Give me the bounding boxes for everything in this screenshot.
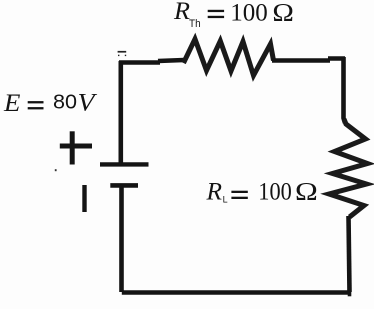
svg-text:80: 80 bbox=[53, 92, 77, 114]
svg-text:L: L bbox=[223, 195, 228, 205]
svg-text:E: E bbox=[3, 88, 21, 117]
wire bottom horizontal bbox=[122, 290, 351, 295]
battery E top plate bbox=[100, 162, 149, 166]
resistor R_Th bbox=[184, 39, 274, 76]
wire bottom-right corner nub bbox=[348, 292, 352, 296]
svg-text:Ω: Ω bbox=[295, 179, 318, 206]
wire left vertical upper bbox=[119, 61, 124, 163]
svg-text:100: 100 bbox=[230, 0, 267, 26]
svg-text:Th: Th bbox=[189, 18, 201, 30]
wire left vertical lower bbox=[119, 186, 124, 292]
wire top-right horizontal bbox=[272, 59, 345, 61]
label E = 80V bbox=[3, 88, 98, 118]
battery E bottom plate bbox=[110, 183, 138, 188]
svg-text:R: R bbox=[173, 0, 190, 25]
battery minus mark bbox=[82, 185, 86, 212]
label R_L = 100 Ohm bbox=[205, 179, 317, 206]
svg-text:Ω: Ω bbox=[272, 0, 294, 26]
svg-text:R: R bbox=[205, 179, 222, 206]
stray dot left of battery bbox=[55, 169, 57, 171]
wire right vertical upper bbox=[344, 57, 346, 123]
wire top-left horizontal bbox=[119, 60, 184, 63]
svg-text:V: V bbox=[78, 88, 99, 117]
label R_Th = 100 Ohm bbox=[173, 0, 294, 30]
stray mark near top-left corner bbox=[118, 51, 127, 56]
svg-text:100: 100 bbox=[258, 179, 292, 206]
wire right vertical lower bbox=[349, 216, 350, 292]
resistor RL bbox=[329, 119, 368, 217]
battery plus sign bbox=[60, 131, 92, 164]
